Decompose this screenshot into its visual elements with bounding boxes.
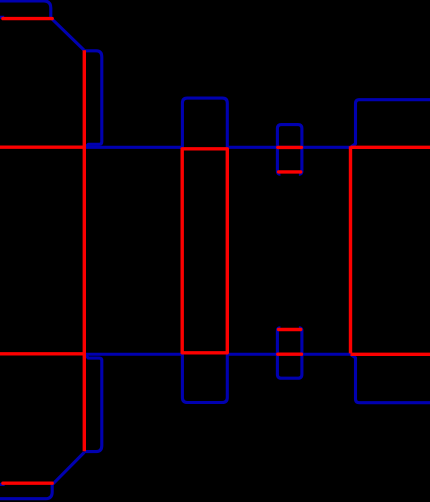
wire top fold line blue left segment bbox=[85, 146, 182, 149]
wire bottom middle tab blue bbox=[182, 354, 227, 402]
wire top slot blue rounded rect bbox=[277, 125, 302, 175]
wire right fold red cut bottom bbox=[351, 353, 430, 356]
wire top-left flap blue outline bbox=[0, 1, 84, 50]
wire left edge blue stub bottom bbox=[0, 483, 5, 486]
wire bottom fold line blue left segment bbox=[85, 353, 182, 356]
wire top-left red cut line bbox=[3, 17, 52, 20]
wire left fold red cut top bbox=[0, 145, 84, 148]
wire bottom slot red fold segment bbox=[278, 353, 302, 356]
wire top-left tab blue outline bbox=[84, 51, 102, 148]
wire top slot red fold segment bbox=[278, 146, 302, 149]
wire left red vertical cut bbox=[83, 50, 86, 451]
wire right fold red cut top bbox=[351, 146, 430, 149]
wire left fold red cut bottom bbox=[0, 352, 84, 355]
wire bottom-left flap blue outline bbox=[0, 452, 84, 498]
wire top slot red bottom segment bbox=[279, 170, 301, 173]
wire bottom fold line blue right segment bbox=[227, 354, 430, 402]
wire bottom slot blue rounded rect bbox=[277, 328, 302, 378]
wire middle red rectangle cut bbox=[182, 149, 227, 353]
wire right red vertical cut bbox=[349, 146, 352, 353]
wire left edge blue stub top bbox=[0, 16, 4, 19]
wire bottom slot red top segment bbox=[279, 328, 301, 331]
wire top fold line blue right segment bbox=[227, 100, 430, 148]
wire bottom-left red cut line bbox=[3, 482, 52, 485]
wire top middle tab blue bbox=[182, 98, 227, 147]
wire bottom-left tab blue outline bbox=[84, 355, 102, 452]
